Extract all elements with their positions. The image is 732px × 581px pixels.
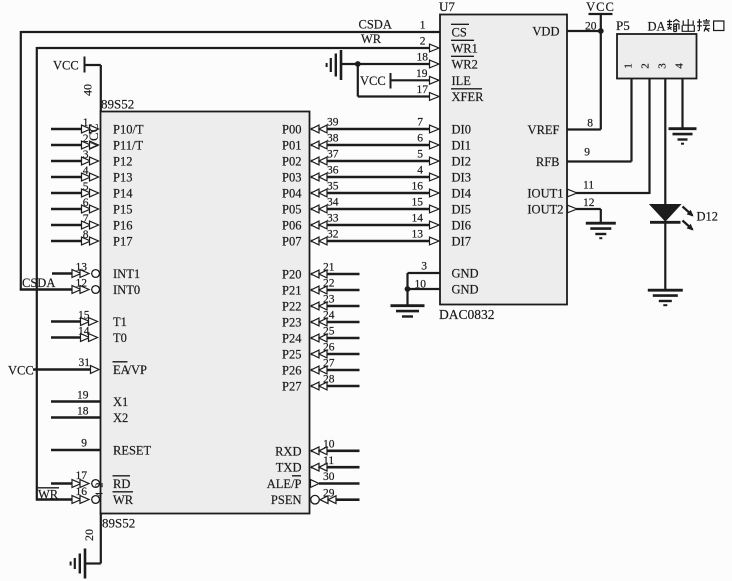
svg-text:7: 7 — [83, 213, 89, 225]
svg-text:RD: RD — [113, 477, 130, 491]
svg-text:37: 37 — [327, 148, 339, 160]
svg-text:40: 40 — [81, 84, 95, 96]
svg-text:12: 12 — [76, 277, 88, 289]
svg-text:13: 13 — [412, 228, 424, 240]
svg-text:4: 4 — [95, 492, 106, 497]
svg-text:P14: P14 — [113, 187, 133, 201]
svg-text:P10/T: P10/T — [113, 123, 144, 137]
svg-text:28: 28 — [323, 374, 335, 386]
svg-text:INT0: INT0 — [113, 283, 140, 297]
svg-text:7: 7 — [417, 116, 423, 128]
svg-text:16: 16 — [412, 180, 424, 192]
svg-text:1: 1 — [623, 63, 635, 69]
svg-text:P26: P26 — [282, 364, 301, 378]
svg-text:DAC0832: DAC0832 — [439, 307, 495, 322]
svg-text:P27: P27 — [282, 380, 301, 394]
svg-text:P11/T: P11/T — [113, 139, 143, 153]
svg-text:CSDA: CSDA — [22, 276, 55, 290]
svg-text:4: 4 — [674, 63, 686, 69]
svg-text:WR: WR — [38, 488, 59, 502]
svg-text:DI5: DI5 — [452, 203, 471, 217]
svg-text:TXD: TXD — [276, 461, 302, 475]
svg-text:6: 6 — [83, 197, 89, 209]
svg-text:CSDA: CSDA — [359, 18, 392, 32]
svg-text:33: 33 — [327, 212, 339, 224]
svg-text:30: 30 — [323, 471, 335, 483]
svg-text:DI7: DI7 — [452, 235, 471, 249]
svg-text:P07: P07 — [282, 235, 301, 249]
svg-text:4: 4 — [417, 164, 423, 176]
svg-text:5: 5 — [417, 148, 423, 160]
svg-text:18: 18 — [77, 405, 89, 417]
svg-text:11: 11 — [583, 180, 594, 192]
svg-text:35: 35 — [327, 180, 339, 192]
svg-text:P05: P05 — [282, 203, 301, 217]
svg-text:12: 12 — [583, 197, 595, 209]
svg-text:VDD: VDD — [532, 25, 559, 39]
svg-text:2: 2 — [640, 63, 652, 69]
svg-text:8: 8 — [83, 229, 89, 241]
svg-text:5: 5 — [83, 181, 89, 193]
svg-text:10: 10 — [415, 278, 427, 290]
svg-text:P22: P22 — [282, 300, 301, 314]
svg-text:24: 24 — [323, 310, 335, 322]
svg-text:GND: GND — [452, 267, 479, 281]
svg-text:P17: P17 — [113, 235, 132, 249]
svg-text:18: 18 — [417, 52, 429, 64]
svg-text:P21: P21 — [282, 284, 301, 298]
svg-text:3: 3 — [421, 261, 427, 273]
svg-text:16: 16 — [76, 486, 88, 498]
svg-text:P23: P23 — [282, 316, 301, 330]
svg-text:P5: P5 — [616, 18, 630, 33]
svg-text:WR: WR — [361, 32, 382, 46]
svg-text:13: 13 — [76, 261, 88, 273]
svg-text:DA: DA — [648, 20, 666, 34]
svg-text:9: 9 — [81, 438, 87, 450]
svg-text:DI4: DI4 — [452, 187, 472, 201]
svg-text:VCC: VCC — [586, 0, 615, 14]
svg-text:10: 10 — [323, 438, 335, 450]
svg-text:VCC: VCC — [360, 74, 386, 88]
svg-text:X1: X1 — [113, 395, 128, 409]
svg-text:P06: P06 — [282, 219, 301, 233]
svg-text:25: 25 — [323, 326, 335, 338]
svg-text:DI3: DI3 — [452, 171, 471, 185]
svg-text:23: 23 — [323, 294, 335, 306]
svg-text:2: 2 — [95, 483, 106, 488]
svg-text:RESET: RESET — [113, 444, 152, 458]
svg-text:38: 38 — [327, 132, 339, 144]
svg-text:/VP: /VP — [128, 363, 148, 377]
svg-text:T0: T0 — [113, 331, 127, 345]
svg-text:U7: U7 — [439, 0, 455, 14]
svg-text:17: 17 — [417, 84, 429, 96]
svg-text:D12: D12 — [697, 210, 719, 224]
svg-text:XFER: XFER — [452, 90, 485, 104]
svg-text:14: 14 — [78, 325, 90, 337]
svg-text:14: 14 — [412, 212, 424, 224]
svg-text:20: 20 — [82, 529, 96, 541]
svg-text:VCC: VCC — [53, 59, 79, 73]
svg-text:VREF: VREF — [528, 123, 560, 137]
svg-text:INT1: INT1 — [113, 267, 140, 281]
svg-text:19: 19 — [416, 68, 428, 80]
svg-text:WR: WR — [113, 493, 134, 507]
svg-text:VCC: VCC — [86, 124, 101, 151]
svg-text:WR2: WR2 — [452, 58, 478, 72]
svg-text:34: 34 — [327, 196, 339, 208]
svg-text:RXD: RXD — [275, 444, 301, 458]
svg-text:2: 2 — [420, 36, 426, 48]
svg-text:20: 20 — [585, 21, 597, 33]
svg-text:21: 21 — [323, 262, 335, 274]
svg-text:P15: P15 — [113, 203, 132, 217]
svg-text:6: 6 — [417, 132, 423, 144]
svg-text:P24: P24 — [282, 332, 302, 346]
svg-text:11: 11 — [323, 455, 334, 467]
svg-text:36: 36 — [327, 164, 339, 176]
svg-text:DI6: DI6 — [452, 219, 471, 233]
svg-text:89S52: 89S52 — [101, 97, 134, 112]
svg-text:VCC: VCC — [8, 364, 34, 378]
svg-text:P03: P03 — [282, 171, 301, 185]
svg-text:19: 19 — [77, 389, 89, 401]
svg-text:P01: P01 — [282, 139, 301, 153]
svg-text:IOUT2: IOUT2 — [527, 203, 563, 217]
svg-text:P16: P16 — [113, 219, 132, 233]
svg-text:DI0: DI0 — [452, 123, 471, 137]
svg-text:P25: P25 — [282, 348, 301, 362]
svg-text:9: 9 — [584, 147, 590, 159]
svg-text:RFB: RFB — [536, 155, 560, 169]
svg-text:3: 3 — [657, 63, 669, 69]
svg-text:WR1: WR1 — [452, 42, 478, 56]
svg-text:29: 29 — [323, 487, 335, 499]
svg-text:32: 32 — [327, 228, 339, 240]
svg-text:89S52: 89S52 — [102, 516, 135, 531]
svg-text:P13: P13 — [113, 171, 132, 185]
svg-text:4: 4 — [83, 165, 89, 177]
svg-text:31: 31 — [79, 357, 91, 369]
svg-text:DI2: DI2 — [452, 155, 471, 169]
svg-text:PSEN: PSEN — [271, 493, 302, 507]
svg-text:DI1: DI1 — [452, 139, 471, 153]
svg-text:39: 39 — [327, 116, 339, 128]
svg-text:27: 27 — [323, 358, 335, 370]
svg-text:22: 22 — [323, 278, 335, 290]
svg-text:P20: P20 — [282, 268, 301, 282]
svg-text:15: 15 — [78, 309, 90, 321]
svg-text:1: 1 — [420, 20, 426, 32]
svg-text:P04: P04 — [282, 187, 302, 201]
svg-text:X2: X2 — [113, 411, 128, 425]
svg-text:CS: CS — [452, 26, 467, 40]
svg-text:17: 17 — [76, 470, 88, 482]
svg-text:ALE/P: ALE/P — [267, 477, 302, 491]
svg-text:26: 26 — [323, 342, 335, 354]
svg-text:T1: T1 — [113, 315, 127, 329]
svg-text:15: 15 — [412, 196, 424, 208]
svg-text:P00: P00 — [282, 123, 301, 137]
svg-text:GND: GND — [452, 283, 479, 297]
svg-text:IOUT1: IOUT1 — [527, 187, 563, 201]
svg-text:P12: P12 — [113, 155, 132, 169]
svg-text:P02: P02 — [282, 155, 301, 169]
svg-text:8: 8 — [587, 118, 593, 130]
svg-text:ILE: ILE — [452, 74, 472, 88]
